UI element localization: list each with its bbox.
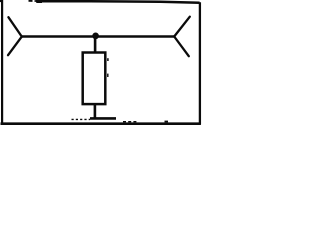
terminal T1	[8, 17, 22, 55]
wire	[94, 38, 97, 53]
wire	[94, 104, 97, 119]
resistor R1	[83, 53, 106, 105]
ground	[72, 118, 117, 119]
terminal T2	[174, 17, 190, 57]
node A junction dot	[92, 33, 99, 40]
wire	[22, 35, 174, 38]
